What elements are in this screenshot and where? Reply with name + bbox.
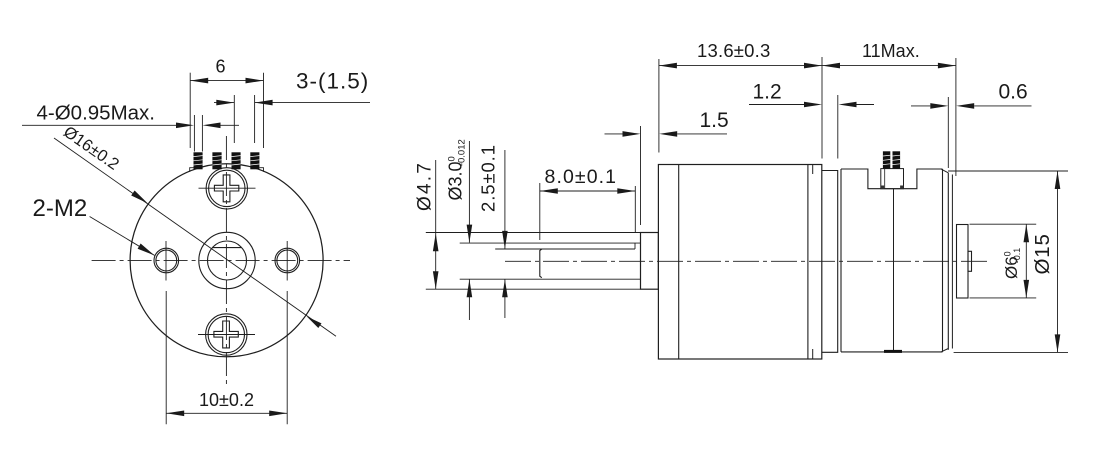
motor rear edge (942, 169, 944, 352)
dimension 0.6 line (911, 105, 930, 107)
dimension Ø4.7 vertical line (435, 160, 437, 289)
horizontal centerline (92, 259, 350, 261)
dimension 2.5 vertical lines (504, 150, 506, 249)
dimension 10±0.2 extension lines (165, 291, 167, 424)
hub top extension line (426, 232, 641, 234)
dimension 11Max line (822, 65, 956, 67)
top screw phillips cross (214, 175, 238, 202)
rear cap second line (951, 175, 953, 349)
rear cap chamfer bottom (942, 349, 949, 352)
svg-text:Ø4.7: Ø4.7 (415, 161, 436, 211)
dimension 1.5 line (605, 133, 623, 135)
svg-text:6: 6 (215, 57, 225, 77)
dimension Ø6 extension lines (970, 223, 1037, 225)
motor face outer circle Ø16 (130, 164, 323, 357)
bottom terminal tab (884, 350, 902, 353)
gearbox front plate line (678, 165, 680, 360)
gearbox rear corner line bottom (812, 349, 814, 359)
motor terminal pins (883, 151, 900, 168)
bottom screw horizontal tick (198, 334, 255, 336)
svg-text:8.0±0.1: 8.0±0.1 (545, 166, 618, 188)
gearbox rear corner line top (812, 165, 814, 175)
left hole vertical tick (165, 241, 167, 281)
svg-text:1.2: 1.2 (753, 81, 782, 104)
dimension 1.2 line (749, 104, 804, 106)
side view centerline (505, 260, 990, 262)
center hub outer ring Ø4.7 (199, 232, 255, 288)
dimension 6 extension lines (189, 73, 191, 148)
gearbox rear plate line (807, 165, 809, 360)
dimension 3-(1.5) extension lines (233, 95, 235, 143)
dimension Ø6 line (1025, 224, 1027, 298)
dimension 13.6/11/1.2 extension line (821, 57, 823, 159)
dimension Ø15 line (1057, 171, 1059, 352)
svg-text:Ø60-0.1: Ø60-0.1 (1002, 248, 1022, 279)
dimension Ø16 diagonal line (54, 138, 336, 336)
dimension 1.2 extension line (837, 95, 839, 159)
dimension 13.6 extension line left (658, 59, 660, 153)
shaft tip (540, 249, 542, 278)
rear cap face (947, 173, 949, 350)
front bearing hub (641, 233, 659, 290)
motor can left edge (840, 169, 842, 352)
left M2 hole (154, 248, 179, 273)
pin texture lines (194, 156, 260, 165)
terminal pin 1 (194, 152, 260, 169)
svg-text:3-(1.5): 3-(1.5) (296, 69, 369, 94)
dimension 0.6 extension line left (947, 97, 949, 168)
svg-text:11Max.: 11Max. (862, 41, 920, 61)
connector block feet (881, 186, 884, 189)
2-M2 leader (90, 217, 155, 256)
output shaft top flat edge (495, 248, 635, 250)
svg-text:Ø15: Ø15 (1031, 233, 1054, 274)
dimension 4-Ø0.95Max leader (193, 115, 195, 152)
dimension 11Max extension line (955, 58, 957, 176)
top screw horizontal tick (199, 187, 256, 189)
motor can mid seam (893, 189, 895, 352)
shaft bottom edge (460, 278, 641, 280)
gearbox body (658, 165, 821, 360)
svg-text:4-Ø0.95Max.: 4-Ø0.95Max. (37, 102, 156, 125)
dimension Ø3.0 vertical lines (468, 141, 470, 243)
motor can bottom (841, 351, 943, 353)
base step right (259, 168, 263, 172)
svg-text:10±0.2: 10±0.2 (199, 390, 254, 410)
svg-text:2-M2: 2-M2 (33, 195, 88, 222)
dimension Ø15 extension lines (948, 170, 1068, 172)
svg-text:0.6: 0.6 (999, 81, 1028, 104)
base step left (190, 168, 194, 172)
dimension 8.0 line (540, 190, 636, 192)
dimension 13.6 line (659, 65, 822, 67)
bottom screw phillips cross (214, 321, 238, 348)
svg-text:13.6±0.3: 13.6±0.3 (697, 40, 770, 61)
dimension 1.5 extension line left (640, 126, 642, 225)
vertical centerline (225, 136, 227, 386)
shaft step at end of flat (634, 243, 636, 249)
shaft bore circle Ø3 (208, 241, 247, 280)
dimension 3-(1.5) arrows and lines (214, 102, 234, 104)
bottom screw ring (206, 314, 247, 355)
motor can top with connector notch (841, 169, 943, 189)
right hole vertical tick (286, 241, 288, 281)
svg-text:1.5: 1.5 (700, 109, 729, 132)
rear bearing hub Ø6 (957, 225, 969, 299)
svg-text:2.5±0.1: 2.5±0.1 (478, 144, 499, 212)
top screw ring (206, 168, 247, 209)
dimension 6 line (190, 80, 263, 82)
motor flange section (822, 171, 838, 353)
hub bottom extension line (426, 288, 641, 290)
dimension 10±0.2 line (166, 412, 287, 414)
connector block (881, 169, 904, 189)
connector block inner line (884, 169, 886, 189)
rear cap chamfer top (942, 169, 949, 173)
dimension 8.0 extension lines (539, 183, 541, 240)
rear shaft stub (968, 251, 972, 271)
right M2 hole (275, 248, 300, 273)
shaft D-flat chord (212, 247, 241, 249)
shaft full dia top edge (460, 242, 641, 244)
